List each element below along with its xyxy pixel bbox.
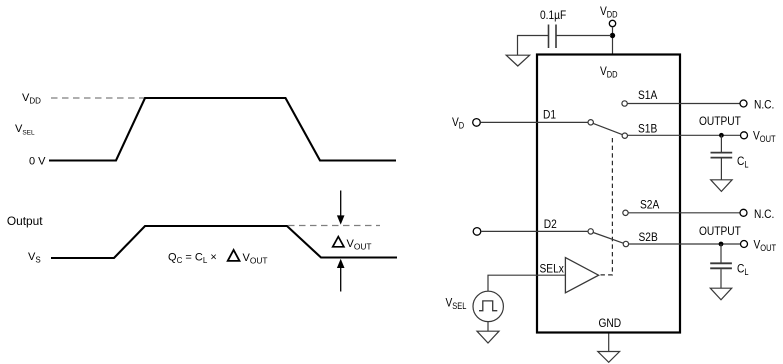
svg-text:Output: Output [7, 214, 43, 228]
svg-text:S2A: S2A [640, 199, 660, 212]
dashed VDD level line [51, 97, 146, 99]
ground (near 0.1uF) [506, 55, 529, 66]
wire output node to CL (S2B) [720, 244, 722, 263]
ground (CL S2B) [710, 288, 731, 300]
node switch pole D1 [588, 120, 593, 125]
svg-text:N.C.: N.C. [754, 208, 774, 221]
svg-text:VOUT: VOUT [753, 130, 776, 144]
svg-text:GND: GND [599, 317, 622, 330]
junction VDD node [610, 33, 615, 38]
svg-text:D2: D2 [544, 218, 557, 231]
svg-text:VDD: VDD [600, 65, 618, 79]
node S2B contact [623, 241, 628, 246]
switch arm S1 [593, 123, 622, 134]
wire CL to ground (S1B) [720, 159, 722, 180]
wire output node to CL (S1B) [720, 135, 722, 152]
node VOUT terminal (S1B) [741, 132, 748, 139]
node N.C. terminal (S2A) [740, 209, 747, 216]
svg-text:OUTPUT: OUTPUT [699, 115, 741, 128]
capacitor CL (S1B) [711, 153, 733, 158]
wire S2B to VOUT [629, 243, 741, 245]
junction output node (S2B) [719, 242, 724, 247]
svg-text:VSEL: VSEL [446, 297, 467, 311]
svg-text:CL: CL [737, 155, 749, 169]
buffer driver (SELx) [565, 258, 598, 293]
wire VDD terminal to box [612, 27, 614, 55]
wire GND pin [608, 334, 610, 352]
svg-text:QC = CL ×: QC = CL × [168, 252, 217, 266]
arrow up to settled level [337, 259, 345, 292]
svg-text:SELx: SELx [540, 263, 565, 276]
wire CL to ground (S2B) [720, 269, 722, 288]
node VOUT terminal (S2B) [741, 241, 748, 248]
svg-text:VD: VD [452, 116, 464, 130]
wire D2 terminal to switch pole [481, 230, 588, 232]
svg-text:VDD: VDD [600, 5, 618, 19]
svg-text:D1: D1 [543, 109, 556, 122]
wire junction to capacitor [556, 35, 611, 37]
wire VSEL waveform [49, 98, 396, 161]
svg-text:0.1µF: 0.1µF [540, 9, 566, 22]
node S1A contact [622, 101, 627, 106]
svg-text:OUTPUT: OUTPUT [699, 225, 741, 238]
svg-text:N.C.: N.C. [754, 99, 774, 112]
wire VD to switch pole D1 [480, 121, 588, 123]
svg-text:0 V: 0 V [29, 155, 46, 167]
dashed output level line [288, 225, 380, 227]
wire capacitor to ground [518, 36, 549, 56]
node switch pole D2 [588, 229, 593, 234]
wire output waveform [51, 226, 397, 258]
wire S1B to VOUT [628, 134, 741, 136]
svg-text:S1B: S1B [638, 123, 657, 136]
wire VSEL source to ground [487, 322, 489, 331]
svg-text:S2B: S2B [639, 231, 658, 244]
label delta VOUT [333, 237, 372, 252]
node VD terminal [473, 119, 481, 127]
node VDD terminal [609, 20, 615, 26]
ground (VSEL source) [477, 331, 499, 343]
IC box [537, 55, 680, 333]
formula QC = CL x dVOUT [168, 250, 268, 266]
node N.C. terminal (S1A) [740, 100, 747, 107]
wire S1A to N.C. [627, 103, 740, 105]
node D2 terminal [473, 228, 481, 236]
svg-text:VDD: VDD [22, 92, 41, 105]
switch arm S2 [593, 233, 623, 244]
arrow down to dashed level [337, 191, 345, 225]
node S1B contact [622, 133, 627, 138]
node S2A contact [623, 210, 628, 215]
ground (GND pin) [598, 352, 620, 363]
capacitor CL (S2B) [710, 263, 732, 268]
dashed select linkage [601, 136, 613, 275]
capacitor 0.1uF plates [549, 25, 557, 49]
svg-text:VSEL: VSEL [15, 123, 35, 136]
svg-text:VOUT: VOUT [347, 238, 372, 252]
svg-text:VS: VS [28, 251, 41, 264]
junction output node (S1B) [719, 133, 724, 138]
wire VSEL to buffer [488, 275, 565, 291]
svg-text:VOUT: VOUT [243, 252, 268, 266]
svg-text:S1A: S1A [638, 89, 658, 102]
source VSEL pulse generator [473, 291, 503, 321]
wire S2A to N.C. [628, 212, 740, 214]
svg-text:VOUT: VOUT [753, 239, 776, 253]
svg-text:CL: CL [737, 263, 749, 277]
ground (CL S1B) [711, 180, 732, 192]
